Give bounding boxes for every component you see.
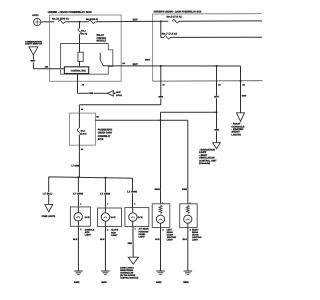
svg-text:G402: G402 [156,281,162,284]
svg-text:GRN: GRN [214,129,219,132]
svg-text:LT GRN: LT GRN [100,192,110,195]
svg-text:WHT: WHT [31,60,36,63]
svg-text:RED: RED [128,242,133,245]
svg-text:CONTROL UNIT: CONTROL UNIT [199,159,217,162]
svg-text:DOME LIGHTS: DOME LIGHTS [42,215,56,218]
svg-text:LT GRN: LT GRN [127,191,137,194]
svg-text:No.7 (7.5 A): No.7 (7.5 A) [162,33,177,36]
svg-text:2: 2 [190,228,191,231]
svg-text:WHT: WHT [133,19,139,22]
svg-text:UNDER - HOOD FUSE/RELAY BOX: UNDER - HOOD FUSE/RELAY BOX [48,11,92,14]
svg-text:- HEATED: - HEATED [231,128,243,131]
svg-text:1: 1 [80,202,81,205]
svg-text:No.22 (100 A): No.22 (100 A) [52,18,69,21]
svg-text:(1.4 W): (1.4 W) [111,216,116,219]
svg-text:LIGHT: LIGHT [139,236,146,239]
svg-text:GRN: GRN [182,188,188,191]
svg-text:- SEAT: - SEAT [199,154,208,157]
svg-text:LIGHTS: LIGHTS [231,133,241,136]
svg-text:A16: A16 [45,65,48,68]
svg-text:(B-CAN): (B-CAN) [116,94,122,97]
svg-text:BLK: BLK [155,238,160,241]
svg-text:GRN: GRN [158,96,163,99]
svg-text:16: 16 [81,108,83,111]
svg-text:A9: A9 [82,84,84,87]
svg-text:CONSOLE: CONSOLE [231,125,245,128]
svg-text:E7: E7 [162,84,164,87]
svg-text:LIGHT: LIGHT [85,234,92,237]
svg-text:2: 2 [80,228,81,231]
svg-text:BOX: BOX [98,138,104,141]
svg-text:1: 1 [134,203,135,206]
svg-text:DRIVER'S UNDER - DASH FUSE/REL: DRIVER'S UNDER - DASH FUSE/RELAY BOX [154,11,202,14]
svg-text:2: 2 [107,228,108,231]
svg-text:G401: G401 [74,281,80,284]
svg-text:BOX: BOX [85,231,90,234]
svg-text:BLK: BLK [183,238,188,241]
svg-text:G401: G401 [101,281,107,284]
svg-text:E8: E8 [96,116,98,119]
svg-text:LT GRN: LT GRN [73,192,83,195]
svg-text:- ROOF: - ROOF [231,123,241,126]
svg-text:WHT: WHT [242,95,247,98]
svg-text:WHT: WHT [214,96,219,99]
svg-text:A/T GEAR: A/T GEAR [139,228,149,231]
svg-text:VENTILATION: VENTILATION [199,157,215,160]
svg-text:SEAT: SEAT [231,131,240,134]
svg-text:UNIT: UNIT [199,151,207,154]
svg-text:GLOVE: GLOVE [111,229,118,232]
svg-text:BLK: BLK [73,238,78,241]
svg-text:LIGHT: LIGHT [192,238,199,241]
svg-text:BATTERY: BATTERY [32,14,39,17]
svg-text:WHT: WHT [133,63,139,66]
svg-text:B3: B3 [122,62,124,65]
svg-text:CONSOLE: CONSOLE [85,229,95,232]
svg-text:CONTROL MODULE): CONTROL MODULE) [120,276,138,279]
svg-text:2: 2 [163,228,164,231]
svg-text:No.3 (7.5 A): No.3 (7.5 A) [167,16,182,19]
svg-text:No.18 (40 A): No.18 (40 A) [86,18,98,21]
svg-text:LT GRN: LT GRN [71,164,79,167]
svg-text:WHT: WHT [116,91,121,94]
svg-text:16: 16 [81,148,83,151]
svg-text:(1.4 W): (1.4 W) [138,216,143,219]
svg-text:- NAVIGATION: - NAVIGATION [199,148,215,151]
svg-text:GRN: GRN [155,188,161,191]
svg-text:(1.4 W): (1.4 W) [85,216,90,219]
svg-text:PNK: PNK [89,92,94,95]
svg-text:WHT: WHT [145,58,151,61]
svg-text:CONTROL BOX: CONTROL BOX [71,70,86,73]
svg-text:MODULE: MODULE [97,40,107,43]
svg-text:(Canada): (Canada) [199,162,210,165]
svg-text:BOX: BOX [111,231,116,234]
svg-text:No.7: No.7 [81,130,86,133]
svg-text:No.4: No.4 [81,30,86,33]
svg-text:POSITION: POSITION [139,230,149,233]
svg-text:BLK: BLK [100,238,105,241]
svg-text:(7.5 A): (7.5 A) [81,32,87,35]
svg-text:LT BLU: LT BLU [43,192,53,195]
svg-text:PANEL: PANEL [139,233,147,236]
svg-text:LIGHT SWITCH: LIGHT SWITCH [25,43,42,46]
svg-text:H6: H6 [242,83,244,86]
svg-text:LIGHT: LIGHT [111,234,118,237]
svg-text:(7.5 A): (7.5 A) [81,132,87,135]
svg-text:LIGHT: LIGHT [167,238,174,241]
svg-text:G501: G501 [183,281,189,284]
svg-text:1: 1 [107,203,108,206]
